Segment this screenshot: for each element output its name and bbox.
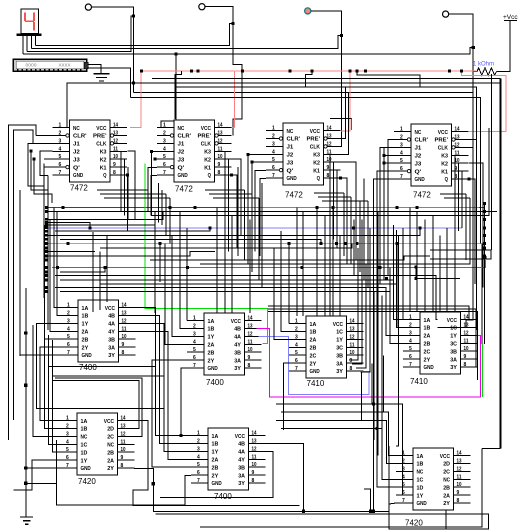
svg-text:7400: 7400 — [206, 378, 224, 387]
U3 pin 13 PRE' — [324, 138, 341, 140]
U9 pin 14 VCC — [118, 420, 135, 422]
svg-text:6: 6 — [295, 358, 298, 364]
svg-text:14: 14 — [457, 451, 462, 457]
svg-text:CLR': CLR' — [415, 138, 429, 144]
wire periwinkle bus — [48, 227, 462, 229]
bus wire B from 7seg — [31, 36, 341, 49]
svg-text:1Y: 1Y — [417, 493, 424, 499]
U6 pin 3 1Y — [187, 335, 204, 337]
U5 pin 7 GND — [61, 354, 78, 356]
wire hbus 219 — [48, 212, 163, 220]
U10 pin 6 2Y — [191, 474, 208, 476]
svg-text:VCC: VCC — [333, 322, 344, 328]
junction U2 riser — [175, 53, 178, 56]
wire U9 2Y out — [134, 468, 160, 511]
wire gap1 v6 — [169, 198, 171, 244]
svg-text:3: 3 — [59, 138, 62, 144]
U9 pin 2 1B — [60, 428, 77, 430]
U4 pin 5 J3 — [394, 162, 411, 164]
svg-text:7472: 7472 — [413, 191, 431, 200]
svg-text:1B: 1B — [417, 462, 424, 468]
wire U2 J2 link — [152, 150, 158, 152]
svg-text:6: 6 — [197, 470, 200, 476]
svg-text:1Y: 1Y — [81, 458, 88, 464]
ground G2 bottom left — [20, 516, 33, 518]
wire magenta right riser — [484, 257, 486, 267]
U5 pin 4 2A — [61, 330, 78, 332]
svg-text:XXXX: XXXX — [59, 63, 71, 68]
svg-text:1A: 1A — [310, 322, 318, 328]
U8 pin 12 1Y — [461, 334, 478, 336]
wire green U2 link — [145, 164, 267, 344]
wire U2 K drop — [232, 159, 242, 235]
wire VCC red drop U1 — [130, 71, 141, 128]
wire U3 J2 link — [248, 153, 266, 155]
svg-text:GND: GND — [417, 501, 427, 507]
svg-text:3: 3 — [272, 141, 275, 147]
U11 pin 11 NC — [454, 478, 471, 480]
svg-text:4B: 4B — [238, 442, 245, 448]
wire bottom bus 511 — [160, 503, 396, 511]
svg-text:K1: K1 — [313, 168, 321, 174]
U1 pin 5 J3 — [53, 158, 70, 160]
wire drop to U6 pins — [186, 228, 188, 321]
wire U7 GND down — [283, 363, 289, 430]
svg-text:7: 7 — [193, 363, 196, 369]
svg-text:3: 3 — [400, 142, 403, 148]
U9 pin 10 2B — [118, 451, 135, 453]
svg-text:7: 7 — [272, 173, 275, 179]
U8 pin 5 2C — [403, 350, 420, 352]
junction U4 J2 — [383, 154, 386, 157]
U2 pin 1 NC — [157, 127, 174, 129]
wire U9 GND to ground — [26, 467, 60, 469]
svg-text:3: 3 — [163, 138, 166, 144]
wire cyan bus — [47, 243, 482, 245]
U2 pin 3 J1 — [157, 142, 174, 144]
left bus junction dots — [45, 206, 48, 209]
svg-text:2: 2 — [163, 131, 166, 137]
U2 pin 4 J2 — [157, 150, 174, 152]
wire drop to U7 pins — [288, 244, 290, 324]
wire gnd branch b — [26, 440, 57, 483]
svg-text:K1: K1 — [204, 165, 212, 171]
wire gap3 v1 — [343, 193, 345, 256]
svg-text:2A: 2A — [107, 458, 115, 464]
U1 pin 10 K2 — [110, 158, 127, 160]
junction row3 E top — [372, 403, 375, 406]
U3 pin 12 CLK — [324, 145, 341, 147]
junction gnd b — [24, 384, 27, 387]
svg-text:12: 12 — [457, 466, 462, 472]
wire U4 K drop — [469, 163, 483, 287]
svg-text:6: 6 — [67, 342, 70, 348]
svg-text:VCC: VCC — [438, 130, 449, 136]
svg-text:1 kOhm: 1 kOhm — [473, 62, 494, 68]
svg-text:K2: K2 — [313, 160, 320, 166]
wire hbus 239 — [60, 239, 321, 243]
svg-text:2C: 2C — [310, 353, 318, 359]
svg-text:4Y: 4Y — [108, 330, 115, 336]
svg-text:4: 4 — [66, 439, 69, 445]
svg-text:1Y: 1Y — [212, 450, 219, 456]
svg-text:2Y: 2Y — [443, 501, 450, 507]
svg-text:2: 2 — [59, 131, 62, 137]
svg-text:2C: 2C — [424, 349, 432, 355]
junction u9 out — [152, 482, 155, 485]
svg-text:3C: 3C — [336, 346, 344, 352]
svg-text:3: 3 — [295, 334, 298, 340]
U5 pin 11 4Y — [119, 330, 136, 332]
wire gap1 v2 — [151, 151, 153, 215]
U5 pin 2 1B — [61, 315, 78, 317]
IC U1 7472 body — [70, 120, 111, 182]
junction T1 — [132, 14, 135, 17]
wire gap2 v5 — [261, 183, 263, 287]
U4 pin 8 Q — [452, 178, 469, 180]
svg-text:3Y: 3Y — [238, 481, 245, 487]
U8 pin 14 VCC — [461, 319, 478, 321]
U9 pin 1 1A — [60, 420, 77, 422]
U10 pin 13 4B — [249, 443, 266, 445]
word generator instrument — [13, 59, 87, 71]
wire U4 GND long — [374, 179, 395, 404]
wire U1 K2 drop — [124, 159, 126, 215]
svg-text:8: 8 — [248, 363, 251, 369]
wire hbus 309 — [268, 309, 478, 367]
svg-text:2A: 2A — [208, 343, 216, 349]
IC U11 7420 body — [413, 448, 454, 510]
junction gnd c — [24, 466, 27, 469]
svg-text:NC: NC — [415, 130, 422, 136]
svg-text:7: 7 — [402, 498, 405, 504]
svg-text:J3: J3 — [178, 157, 186, 163]
wire U1 Q down — [127, 175, 129, 231]
svg-text:14: 14 — [113, 123, 118, 129]
IC U7 7410 body — [306, 316, 347, 378]
bus wire A from 7seg — [36, 23, 234, 45]
svg-text:3Y: 3Y — [336, 369, 343, 375]
svg-text:3A: 3A — [238, 473, 246, 479]
svg-text:9: 9 — [248, 355, 251, 361]
U6 pin 14 VCC — [245, 320, 262, 322]
svg-text:2B: 2B — [107, 450, 114, 456]
svg-text:8: 8 — [350, 366, 353, 372]
U10 pin 10 3B — [249, 466, 266, 468]
wire right dotcol vertical — [484, 204, 486, 345]
U4 pin 6 Q' — [394, 170, 411, 172]
wire right vertical 473 lower — [438, 92, 474, 327]
U6 pin 8 3Y — [245, 367, 262, 369]
U11 pin 12 2C — [454, 470, 471, 472]
svg-text:2Y: 2Y — [212, 473, 219, 479]
IC U8 7410 body — [420, 312, 461, 374]
svg-text:2B: 2B — [208, 350, 215, 356]
svg-text:7410: 7410 — [410, 377, 428, 386]
U5 pin 14 VCC — [119, 307, 136, 309]
wire periwinkle U7 loop — [259, 336, 370, 394]
U6 pin 13 4B — [245, 328, 262, 330]
svg-text:J3: J3 — [73, 157, 81, 163]
svg-text:K2: K2 — [100, 157, 107, 163]
svg-text:PRE': PRE' — [198, 134, 212, 140]
wire U9 right stubs — [133, 421, 300, 506]
svg-text:CLR': CLR' — [287, 137, 301, 143]
wire hbus 292 — [60, 292, 403, 344]
svg-text:4: 4 — [197, 454, 200, 460]
svg-text:1: 1 — [295, 319, 298, 325]
svg-text:5: 5 — [197, 462, 200, 468]
svg-text:1A: 1A — [82, 306, 90, 312]
U6 pin 5 2B — [187, 351, 204, 353]
wire U5 label strike — [48, 366, 156, 368]
wire U9 2D feed — [53, 381, 139, 429]
wire hbus 235 — [48, 228, 420, 236]
svg-text:1B: 1B — [212, 442, 219, 448]
wire bottom right corner — [200, 448, 482, 527]
junction U2 Q — [230, 174, 233, 177]
svg-text:4: 4 — [163, 146, 166, 152]
junction U11 pin5 link — [376, 427, 379, 430]
U11 pin 3 NC — [396, 470, 413, 472]
svg-text:NC: NC — [178, 126, 185, 132]
svg-text:1A: 1A — [208, 319, 216, 325]
svg-text:7: 7 — [197, 478, 200, 484]
svg-text:Q: Q — [445, 177, 449, 183]
wire hbus 251 — [48, 251, 95, 253]
U2 pin 5 J3 — [157, 158, 174, 160]
wire gap4 v2 — [469, 198, 471, 264]
svg-text:1B: 1B — [81, 427, 88, 433]
svg-text:2B: 2B — [82, 337, 89, 343]
svg-text:12: 12 — [464, 330, 469, 336]
svg-text:1B: 1B — [424, 326, 431, 332]
wire gap1 h2 — [100, 193, 166, 195]
wire U5 GND left — [20, 354, 61, 356]
wire wordgen to ground — [87, 65, 101, 75]
wire U3 K3 drop — [329, 154, 331, 316]
wire hbus 288 — [55, 288, 403, 336]
wire T2 down — [205, 7, 242, 136]
svg-text:8: 8 — [121, 463, 124, 469]
wire hbus 248 — [100, 244, 352, 248]
svg-text:2: 2 — [67, 311, 70, 317]
junction U2 J2 — [150, 150, 153, 153]
U7 pin 9 3A — [347, 362, 364, 364]
U7 pin 10 3B — [347, 354, 364, 356]
U7 pin 4 2B — [289, 346, 306, 348]
U1 pin 6 Q' — [53, 166, 70, 168]
U2 pin 14 VCC — [215, 127, 232, 129]
seven-segment display — [21, 9, 39, 34]
svg-text:GND: GND — [82, 353, 92, 359]
svg-text:Q: Q — [208, 173, 212, 179]
svg-text:2B: 2B — [212, 465, 219, 471]
wire top strip y98 — [131, 98, 481, 244]
U5 pin 1 1A — [61, 307, 78, 309]
wire gap3 v2 — [350, 197, 352, 264]
U4 pin 14 VCC — [452, 131, 469, 133]
svg-text:1: 1 — [400, 127, 403, 133]
svg-text:NC: NC — [107, 443, 114, 449]
svg-text:3B: 3B — [336, 353, 343, 359]
wire U4 CLK connector — [469, 146, 474, 148]
wire T1 to bus — [92, 7, 134, 92]
svg-text:10: 10 — [121, 447, 126, 453]
svg-text:7400: 7400 — [79, 363, 97, 372]
junction U1 Q — [126, 174, 129, 177]
U9 pin 11 NC — [118, 443, 135, 445]
svg-text:VCC: VCC — [235, 434, 246, 440]
wire top strip y83 — [67, 83, 501, 128]
svg-text:2Y: 2Y — [424, 357, 431, 363]
svg-text:4: 4 — [59, 146, 62, 152]
svg-text:GND: GND — [208, 366, 218, 372]
svg-text:2Y: 2Y — [310, 361, 317, 367]
svg-text:7472: 7472 — [285, 191, 303, 200]
wire bottom bus 513 — [155, 446, 488, 529]
U8 pin 3 2A — [403, 334, 420, 336]
wire left vertical third — [19, 190, 21, 356]
wire gap2 h3 — [213, 197, 259, 199]
svg-text:2C: 2C — [107, 435, 115, 441]
wire T3 down — [311, 11, 342, 147]
U7 pin 12 1Y — [347, 338, 364, 340]
svg-text:10: 10 — [327, 157, 332, 163]
wire drop to U5 p2 — [57, 212, 61, 316]
wire T4 down — [134, 14, 474, 92]
svg-text:VCC: VCC — [231, 319, 242, 325]
wire left loop outer — [9, 125, 37, 440]
U8 pin 6 2Y — [403, 358, 420, 360]
wire U1 K3 drop — [120, 151, 122, 211]
wire U1 left pin4 drop — [31, 151, 48, 190]
svg-text:Q: Q — [317, 176, 321, 182]
U2 pin 13 PRE' — [215, 135, 232, 137]
junction magenta riser — [484, 256, 487, 259]
wire U3 J3 link — [252, 161, 266, 163]
svg-text:12: 12 — [121, 431, 126, 437]
svg-text:GND: GND — [81, 466, 91, 472]
U3 pin 5 J3 — [266, 161, 283, 163]
wire U6 GND down — [181, 368, 187, 436]
U11 pin 13 2D — [454, 463, 471, 465]
svg-text:1C: 1C — [336, 330, 344, 336]
wire U3 left pins drop — [260, 178, 266, 256]
U11 pin 5 1D — [396, 486, 413, 488]
svg-text:CLR': CLR' — [73, 134, 87, 140]
terminal T2 — [199, 4, 205, 10]
U8 pin 7 GND — [403, 366, 420, 368]
ground G1 — [94, 73, 110, 75]
wire U4 Q' long — [377, 171, 394, 429]
wire 7seg lead d — [35, 36, 37, 46]
magenta bus junction dots — [56, 266, 59, 269]
svg-text:K3: K3 — [204, 150, 212, 156]
U9 pin 3 NC — [60, 435, 77, 437]
svg-text:3A: 3A — [108, 345, 116, 351]
wire gap4 v1 — [465, 194, 467, 260]
svg-text:11: 11 — [121, 439, 126, 445]
svg-text:VCC: VCC — [104, 419, 115, 425]
svg-text:2D: 2D — [107, 427, 114, 433]
U4 pin 11 K3 — [452, 154, 469, 156]
wire hbus 306 — [268, 306, 469, 319]
svg-text:5: 5 — [193, 347, 196, 353]
svg-text:14: 14 — [350, 319, 355, 325]
svg-text:CLK: CLK — [310, 145, 321, 151]
svg-text:9: 9 — [464, 354, 467, 360]
U1 pin 13 PRE' — [110, 135, 127, 137]
svg-text:GND: GND — [310, 369, 320, 375]
svg-text:6: 6 — [59, 162, 62, 168]
wire VCC to resistor — [497, 21, 511, 72]
svg-text:9: 9 — [252, 470, 255, 476]
U6 pin 9 3A — [245, 359, 262, 361]
wire U9 1A approach — [33, 325, 60, 436]
wire hbus 231 — [55, 228, 210, 231]
U6 pin 7 GND — [187, 367, 204, 369]
bus wire D from 7seg — [23, 47, 473, 54]
wire U11 bottom — [445, 510, 447, 529]
junction gnd d — [24, 482, 27, 485]
wire U3 K2 drop — [333, 162, 335, 239]
U10 pin 11 4Y — [249, 458, 266, 460]
wire row3 long E — [373, 404, 375, 511]
svg-text:1B: 1B — [82, 314, 89, 320]
svg-text:3A: 3A — [450, 357, 458, 363]
wire U10 out pin12 — [160, 451, 273, 497]
svg-text:14: 14 — [455, 127, 460, 133]
svg-text:1A: 1A — [212, 434, 220, 440]
svg-text:8: 8 — [113, 170, 116, 176]
svg-text:4B: 4B — [234, 327, 241, 333]
junction magenta right b — [415, 277, 418, 280]
U7 pin 7 GND — [289, 370, 306, 372]
wire hbus 215 — [151, 128, 489, 215]
wire gap1 v5 — [165, 194, 167, 235]
svg-text:7472: 7472 — [70, 184, 88, 193]
wire U10 out pin13 — [266, 444, 304, 512]
U7 pin 6 2Y — [289, 362, 306, 364]
junction T4 — [472, 46, 475, 49]
junction U3 Q — [339, 177, 342, 180]
svg-text:13: 13 — [350, 327, 355, 333]
svg-text:9: 9 — [327, 165, 330, 171]
IC U4 7472 body — [411, 124, 452, 186]
svg-text:0000: 0000 — [26, 63, 37, 68]
U1 pin 4 J2 — [53, 150, 70, 152]
svg-text:K3: K3 — [441, 154, 449, 160]
junction U1 p5 — [33, 158, 36, 161]
junction U4 J3 — [383, 162, 386, 165]
svg-text:6: 6 — [66, 455, 69, 461]
svg-text:10: 10 — [464, 346, 469, 352]
U9 pin 12 2C — [118, 435, 135, 437]
svg-text:2A: 2A — [424, 334, 432, 340]
U9 pin 5 1D — [60, 451, 77, 453]
svg-text:14: 14 — [122, 303, 127, 309]
svg-text:14: 14 — [327, 126, 332, 132]
svg-text:10: 10 — [122, 334, 127, 340]
svg-text:1C: 1C — [417, 478, 425, 484]
svg-text:J2: J2 — [73, 150, 80, 156]
U2 pin 8 Q — [215, 174, 232, 176]
U3 pin 4 J2 — [266, 153, 283, 155]
svg-text:12: 12 — [252, 446, 257, 452]
word generator output nub — [84, 62, 88, 69]
svg-text:PRE': PRE' — [435, 138, 449, 144]
